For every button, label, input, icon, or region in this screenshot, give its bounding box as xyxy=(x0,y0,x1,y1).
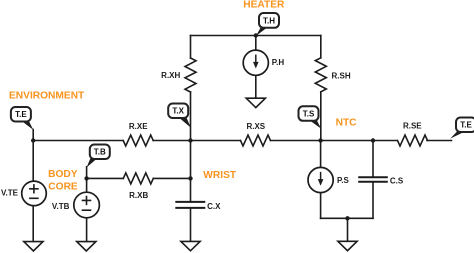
svg-text:HEATER: HEATER xyxy=(243,0,285,11)
svg-text:R.SH: R.SH xyxy=(332,71,351,80)
svg-text:T.E: T.E xyxy=(15,110,27,119)
svg-text:T.H: T.H xyxy=(263,16,275,25)
svg-text:ENVIRONMENT: ENVIRONMENT xyxy=(9,90,85,101)
svg-text:NTC: NTC xyxy=(336,117,358,128)
svg-text:R.XH: R.XH xyxy=(161,71,180,80)
svg-text:V.TB: V.TB xyxy=(52,202,70,211)
svg-text:WRIST: WRIST xyxy=(203,170,237,181)
svg-text:T.S: T.S xyxy=(303,110,315,119)
svg-text:P.H: P.H xyxy=(272,58,285,67)
svg-text:P.S: P.S xyxy=(337,176,350,185)
svg-text:R.XE: R.XE xyxy=(129,122,148,131)
svg-text:R.SE: R.SE xyxy=(403,121,422,130)
svg-text:R.XB: R.XB xyxy=(129,191,148,200)
svg-text:C.X: C.X xyxy=(207,202,221,211)
svg-text:CORE: CORE xyxy=(48,181,78,192)
svg-text:T.B: T.B xyxy=(94,148,106,157)
svg-text:T.E: T.E xyxy=(460,121,472,130)
svg-text:BODY: BODY xyxy=(48,169,78,180)
svg-text:V.TE: V.TE xyxy=(1,189,19,198)
svg-text:T.X: T.X xyxy=(172,107,184,116)
svg-text:C.S: C.S xyxy=(390,176,404,185)
svg-text:R.XS: R.XS xyxy=(246,122,265,131)
